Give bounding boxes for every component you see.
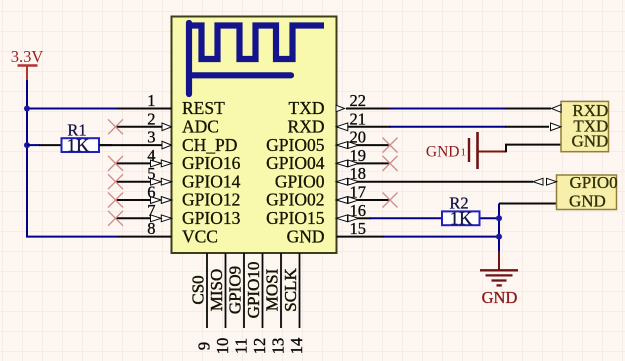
svg-text:1: 1 <box>147 91 155 110</box>
svg-text:CS0: CS0 <box>189 275 208 304</box>
svg-text:19: 19 <box>350 146 367 165</box>
pin 7 GPIO13 (no connect X) <box>108 201 241 228</box>
svg-text:GND: GND <box>287 226 325 246</box>
svg-text:15: 15 <box>350 219 367 238</box>
pin 21 RXD (input) <box>288 109 391 136</box>
svg-text:REST: REST <box>182 98 225 118</box>
pin 13 MOSI (bottom) <box>263 253 288 354</box>
pin 9 CS0 (bottom) <box>189 253 214 350</box>
ESP8266 module body U1 <box>172 17 337 254</box>
resistor R1 <box>39 138 112 152</box>
header P1 RXD entry arrow <box>552 105 562 113</box>
svg-text:4: 4 <box>147 146 155 165</box>
svg-text:GPIO0: GPIO0 <box>570 173 618 192</box>
svg-text:13: 13 <box>269 338 288 355</box>
svg-text:GPIO16: GPIO16 <box>182 153 241 173</box>
pin 1 REST <box>117 91 225 118</box>
svg-text:GPIO02: GPIO02 <box>266 190 324 210</box>
svg-text:GND: GND <box>569 192 606 211</box>
svg-text:8: 8 <box>147 219 155 238</box>
PCB antenna meander <box>189 23 324 94</box>
svg-text:1K: 1K <box>67 136 90 156</box>
svg-text:5: 5 <box>147 164 155 183</box>
wire header GPIO0/GND horizontal <box>499 203 557 205</box>
header P2 GPIO0 entry arrows <box>533 178 557 185</box>
junction node at 3.3V rail / R1 wire <box>24 142 30 148</box>
power port 3.3V <box>11 47 44 81</box>
svg-text:CH_PD: CH_PD <box>182 135 237 155</box>
header P2 (GPIO0/GND) <box>557 175 617 210</box>
pin 14 SCLK (bottom) <box>281 253 306 354</box>
pin 19 GPIO04 (no connect X) <box>266 146 397 173</box>
wire GND1 to header GND <box>506 145 561 153</box>
svg-text:14: 14 <box>287 338 306 355</box>
svg-text:MOSI: MOSI <box>263 268 282 311</box>
pin 8 VCC <box>117 219 218 246</box>
pin 6 GPIO12 (no connect X) <box>108 183 240 210</box>
svg-text:20: 20 <box>350 128 367 147</box>
ground symbol GND (bottom) <box>480 251 518 307</box>
pin 5 GPIO14 (no connect X) <box>108 164 241 191</box>
svg-text:GPIO9: GPIO9 <box>226 266 245 314</box>
wire header GND down to ground rail <box>498 204 500 253</box>
svg-text:GND: GND <box>482 288 518 307</box>
svg-text:GND: GND <box>571 132 608 151</box>
pin 10 MISO (bottom) <box>207 253 232 354</box>
svg-text:GPIO15: GPIO15 <box>266 208 325 228</box>
svg-text:GND: GND <box>426 143 460 160</box>
wire GPIO15 to R2 <box>370 217 443 219</box>
svg-text:GPIO14: GPIO14 <box>182 171 241 191</box>
svg-text:7: 7 <box>147 201 155 220</box>
wire 3.3V rail to R1 <box>27 144 40 146</box>
svg-text:GPIO13: GPIO13 <box>182 208 241 228</box>
svg-text:GPIO04: GPIO04 <box>266 153 325 173</box>
svg-text:GPIO12: GPIO12 <box>182 190 240 210</box>
pin 11 GPIO9 (bottom) <box>226 253 251 354</box>
svg-text:MISO: MISO <box>207 269 226 312</box>
wire 3.3V to REST (pin1 row) <box>27 108 118 110</box>
svg-text:17: 17 <box>350 183 367 202</box>
svg-text:21: 21 <box>350 109 367 128</box>
svg-text:3: 3 <box>147 128 155 147</box>
pin 4 GPIO16 (no connect X) <box>108 146 241 173</box>
wire 3.3V vertical rail <box>27 80 117 237</box>
pin 16 GPIO15 (to R2) <box>266 201 371 228</box>
pin 20 GPIO05 (no connect X) <box>266 128 397 155</box>
pin 15 GND <box>287 219 384 246</box>
pin 12 GPIO10 (bottom) <box>244 253 269 354</box>
svg-text:RXD: RXD <box>288 117 325 137</box>
svg-text:ADC: ADC <box>182 117 219 137</box>
svg-text:GPIO0: GPIO0 <box>275 171 325 191</box>
svg-text:3.3V: 3.3V <box>11 47 44 66</box>
power port GND1 (bar style) <box>426 132 506 169</box>
header P1 TXD entry arrow <box>551 123 562 131</box>
svg-text:1K: 1K <box>450 210 473 230</box>
svg-text:2: 2 <box>147 109 155 128</box>
pin 17 GPIO02 (no connect X) <box>266 183 397 210</box>
wire GND net (pin15 to ground) <box>383 236 499 238</box>
svg-text:TXD: TXD <box>289 98 325 118</box>
svg-text:GPIO05: GPIO05 <box>266 135 325 155</box>
svg-text:6: 6 <box>147 183 155 202</box>
junction node R2 / ground rail <box>496 215 502 221</box>
resistor R2 <box>442 211 499 225</box>
junction node pin15 / ground rail <box>496 234 502 240</box>
wire TXD net (pin22 to RXD header) <box>390 108 507 110</box>
pin 2 ADC (no connect X) <box>108 109 219 136</box>
svg-text:12: 12 <box>250 338 269 355</box>
pin 22 TXD (output) <box>289 91 391 118</box>
wire RXD net (pin21 to TXD header) <box>390 126 507 128</box>
header P1 serial (RXD/TXD/GND) <box>561 101 609 151</box>
svg-text:1: 1 <box>461 147 467 159</box>
junction node at 3.3V rail / pin1 wire <box>24 106 30 112</box>
svg-text:22: 22 <box>350 91 367 110</box>
pin 3 CH_PD (wired to R1) <box>99 128 237 155</box>
svg-text:10: 10 <box>213 338 232 355</box>
svg-text:SCLK: SCLK <box>281 268 300 312</box>
svg-text:18: 18 <box>350 164 367 183</box>
svg-text:16: 16 <box>350 201 367 220</box>
svg-text:9: 9 <box>195 342 214 350</box>
svg-text:11: 11 <box>232 338 251 354</box>
pin 18 GPIO0 <box>275 164 533 191</box>
svg-text:GPIO10: GPIO10 <box>244 262 263 319</box>
svg-text:VCC: VCC <box>182 226 218 246</box>
